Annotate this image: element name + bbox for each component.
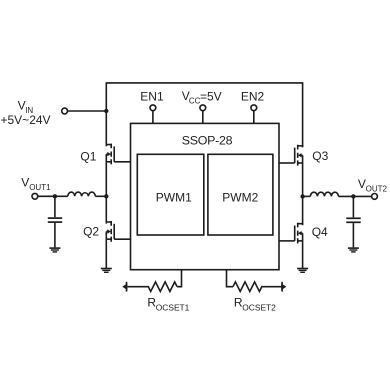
ground (under Q4) (297, 269, 308, 273)
resistor ROCSET2 (233, 282, 281, 292)
svg-text:OCSET2: OCSET2 (242, 302, 276, 312)
svg-text:EN1: EN1 (140, 89, 164, 103)
transistor Q4 (low-side right NMOS, mirrored) (279, 223, 303, 244)
node: VIN junction (104, 109, 108, 113)
label VIN (1, 99, 51, 127)
wire: VCC pin to chip (202, 111, 204, 124)
wire: EN1 pin to chip (152, 111, 154, 124)
node: C1 junction (53, 194, 57, 198)
wire: inductor to VOUT2 (338, 195, 371, 197)
svg-text:Q2: Q2 (83, 225, 99, 239)
svg-text:Q3: Q3 (312, 149, 328, 163)
terminal VCC circle (200, 105, 206, 111)
svg-text:SSOP-28: SSOP-28 (182, 134, 233, 148)
terminal arrow (ROCSET1 left) (122, 282, 127, 292)
svg-text:EN2: EN2 (241, 89, 265, 103)
inductor L2 (310, 192, 338, 196)
capacitor C1 (48, 196, 62, 247)
terminal VIN circle (62, 108, 68, 114)
terminal VOUT2 circle (372, 194, 378, 200)
block PWM2 (208, 154, 273, 235)
transistor Q1 (high-side left NMOS) (106, 144, 130, 165)
wire: EN2 pin to chip (253, 111, 255, 124)
wire: ROCSET2 pin drop (227, 270, 234, 287)
block PWM1 (137, 154, 204, 235)
svg-text:OCSET1: OCSET1 (156, 302, 190, 312)
wire: right leg Q4 source to ground (302, 233, 304, 268)
wire: ROCSET1 pin drop (177, 270, 181, 287)
svg-text:Q4: Q4 (312, 225, 328, 239)
node: C2 junction (351, 194, 355, 198)
label VOUT2 (358, 177, 388, 193)
svg-text:PWM2: PWM2 (222, 191, 258, 205)
svg-text:OUT2: OUT2 (366, 184, 388, 193)
label ROCSET2 (234, 295, 276, 312)
svg-text:CC: CC (189, 97, 201, 106)
capacitor C2 (346, 196, 360, 247)
svg-text:V: V (21, 176, 29, 190)
svg-text:+5V~24V: +5V~24V (1, 113, 51, 127)
node: phase node 1 (104, 194, 108, 198)
label VCC=5V (182, 89, 222, 106)
ground (under Q2) (101, 269, 112, 273)
terminal arrow (ROCSET2 right) (281, 282, 286, 292)
ground (under C1) (49, 248, 60, 252)
label ROCSET1 (147, 295, 189, 312)
svg-text:PWM1: PWM1 (156, 191, 192, 205)
wire: VIN input to rail (68, 110, 107, 112)
wire: left leg Q2 source to ground (105, 232, 107, 269)
inductor L1 (68, 192, 96, 196)
wire: VOUT1 to inductor (38, 195, 68, 197)
wire: phase node 2 to inductor (303, 195, 311, 197)
resistor ROCSET1 (128, 282, 178, 292)
transistor Q2 (low-side left NMOS) (106, 221, 130, 242)
transistor Q3 (high-side right NMOS, mirrored) (279, 145, 303, 166)
svg-text:OUT1: OUT1 (29, 183, 51, 192)
IC U1 SSOP-28 outline (131, 123, 280, 269)
node: phase node 2 (300, 194, 304, 198)
wire: top supply rail with left/right drops (106, 83, 302, 147)
svg-text:=5V: =5V (200, 89, 222, 103)
terminal VOUT1 circle (32, 193, 38, 199)
wire: right leg Q3 source through phase node to Q4 drain (302, 155, 304, 224)
wire: inductor to phase node 1 (95, 195, 106, 197)
svg-text:Q1: Q1 (80, 150, 96, 164)
terminal EN2 circle (251, 105, 257, 111)
label VOUT1 (21, 176, 51, 192)
terminal EN1 circle (150, 105, 156, 111)
wire: left leg Q1 source through phase node to Q2 drain (105, 154, 107, 223)
ground (under C2) (348, 248, 359, 252)
